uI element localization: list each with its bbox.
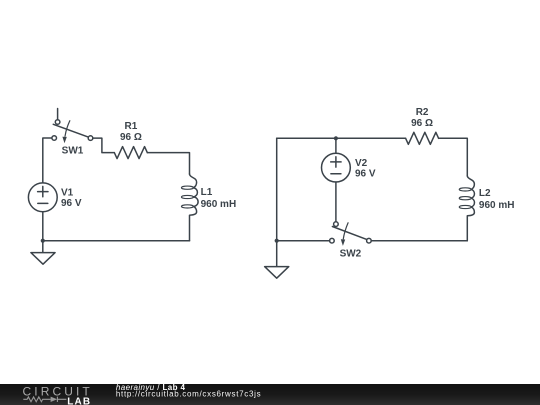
inductor L1 bbox=[181, 174, 198, 241]
wire V2 top stub bbox=[335, 138, 337, 153]
svg-text:960 mH: 960 mH bbox=[479, 200, 515, 211]
wire V1 bottom to ground node bbox=[42, 212, 44, 241]
wire SW1 top stub bbox=[57, 109, 59, 120]
wire V2 bottom to SW2 bbox=[335, 182, 337, 222]
svg-text:96 V: 96 V bbox=[355, 169, 376, 180]
svg-text:96 Ω: 96 Ω bbox=[120, 132, 142, 143]
node junction right circuit bottom left bbox=[275, 239, 279, 243]
resistor R2 bbox=[406, 132, 439, 144]
logo circuit glyph bbox=[23, 397, 66, 402]
svg-text:R2: R2 bbox=[416, 107, 429, 118]
wire bottom rail left circuit bbox=[43, 240, 190, 242]
voltage source V1 bbox=[28, 183, 57, 212]
svg-text:R1: R1 bbox=[125, 121, 138, 132]
ground right bbox=[265, 241, 289, 279]
wire bottom rail right circuit bbox=[277, 240, 468, 242]
svg-text:L2: L2 bbox=[479, 188, 491, 199]
wire R1 to L1 bbox=[147, 153, 189, 174]
switch SW1 bbox=[52, 120, 93, 144]
svg-text:LAB: LAB bbox=[67, 396, 91, 405]
svg-text:L1: L1 bbox=[201, 187, 213, 198]
svg-text:SW1: SW1 bbox=[62, 146, 84, 157]
node junction V2 top bbox=[334, 136, 338, 140]
wire right circuit left vertical bbox=[276, 138, 278, 240]
svg-text:96 Ω: 96 Ω bbox=[411, 118, 433, 129]
resistor R1 bbox=[114, 147, 147, 159]
node junction left circuit bbox=[41, 239, 45, 243]
inductor L2 bbox=[459, 176, 474, 241]
wire right circuit top rail bbox=[277, 138, 468, 176]
wire SW1 left terminal to V1 bbox=[43, 138, 52, 183]
svg-text:SW2: SW2 bbox=[340, 249, 362, 260]
svg-text:960 mH: 960 mH bbox=[201, 199, 237, 210]
svg-text:96 V: 96 V bbox=[61, 198, 82, 209]
svg-text:http://circuitlab.com/cxs6rwst: http://circuitlab.com/cxs6rwst7c3js bbox=[116, 390, 261, 399]
svg-text:V1: V1 bbox=[61, 188, 74, 199]
wire SW1 right terminal to R1 bbox=[93, 138, 115, 153]
ground left bbox=[31, 241, 55, 265]
voltage source V2 bbox=[322, 153, 351, 182]
svg-text:V2: V2 bbox=[355, 158, 368, 169]
switch SW2 bbox=[330, 222, 372, 246]
